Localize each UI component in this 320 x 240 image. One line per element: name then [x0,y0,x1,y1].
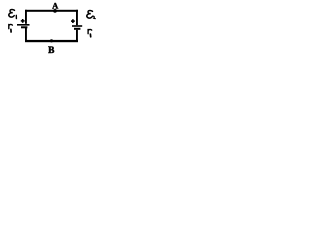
svg-text:A: A [52,2,58,11]
battery E2 short plate (-) [74,28,80,30]
label E2 (script E with subscript 2) [87,11,95,19]
wire: top edge A-side [25,10,78,12]
wire: left edge lower segment [25,28,27,42]
wire: right edge lower segment [76,30,78,42]
polarity + sign of E2 [71,19,75,23]
label r1 (r with subscript) [9,24,13,32]
polarity + sign of E1 [21,19,25,23]
battery E1 short plate (-) [21,26,27,28]
wire: left edge upper segment [25,10,27,24]
battery E1 long plate (+) [17,24,30,26]
wire: bottom edge B-side [25,40,78,42]
node B (junction dot on bottom wire) [50,39,53,42]
label E1 (script E with subscript 1) [9,10,17,19]
wire: right edge upper segment [76,10,78,25]
label r2 (r with subscript) [88,29,92,36]
svg-text:B: B [48,46,54,56]
battery E2 long plate (+) [72,25,82,27]
node A (junction dot on top wire) [53,9,57,13]
